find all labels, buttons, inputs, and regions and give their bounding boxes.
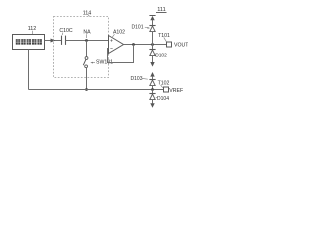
svg-text:T102: T102 xyxy=(158,80,170,86)
svg-text:VREF: VREF xyxy=(169,88,183,94)
supply arrow up (lower stack top) xyxy=(150,72,154,80)
diode D101 xyxy=(132,25,156,45)
label 112 xyxy=(28,26,37,34)
svg-text:C10C: C10C xyxy=(59,28,73,34)
terminal T102 VREF xyxy=(158,80,184,94)
svg-text:D103: D103 xyxy=(131,76,143,82)
wire NA down to switch xyxy=(86,41,88,57)
wire from block 112 down to rail xyxy=(28,50,30,90)
terminal T101 VOUT xyxy=(158,33,189,49)
svg-text:112: 112 xyxy=(28,26,37,32)
junction at rail and switch column xyxy=(85,88,88,91)
svg-text:D102: D102 xyxy=(155,52,167,58)
wire op-amp output to VOUT terminal xyxy=(124,44,167,46)
wire feedback loop xyxy=(108,45,134,63)
supply arrow down (upper stack bottom) xyxy=(150,62,154,67)
supply arrow down (bottom) xyxy=(150,103,154,108)
junction feedback tap xyxy=(132,43,135,46)
svg-text:D104: D104 xyxy=(157,96,169,102)
supply rail arrow up (top) xyxy=(149,16,155,26)
capacitor C10C xyxy=(59,28,73,45)
diode D104 xyxy=(149,90,169,104)
wire bottom rail xyxy=(29,89,164,91)
diode D102 xyxy=(149,45,167,63)
svg-text:D101: D101 xyxy=(132,25,144,31)
svg-text:NA: NA xyxy=(83,29,91,35)
diode D103 xyxy=(131,76,156,90)
svg-text:VOUT: VOUT xyxy=(174,43,188,49)
op-amp A102 xyxy=(109,29,126,53)
junction diode column at VOUT row xyxy=(151,43,154,46)
block 112 photoelectric converter xyxy=(13,35,45,50)
wire capacitor to op-amp xyxy=(66,40,109,42)
label 111 xyxy=(156,7,167,13)
svg-text:114: 114 xyxy=(83,11,92,17)
switch SW101 xyxy=(83,57,113,68)
label 114 xyxy=(83,11,92,17)
wire switch to bottom rail xyxy=(86,68,88,90)
junction diode column at rail xyxy=(151,88,154,91)
node NA xyxy=(83,29,91,41)
dashed block 114 xyxy=(54,17,109,78)
wire block output with arrow xyxy=(45,39,62,43)
svg-text:A102: A102 xyxy=(113,29,125,35)
